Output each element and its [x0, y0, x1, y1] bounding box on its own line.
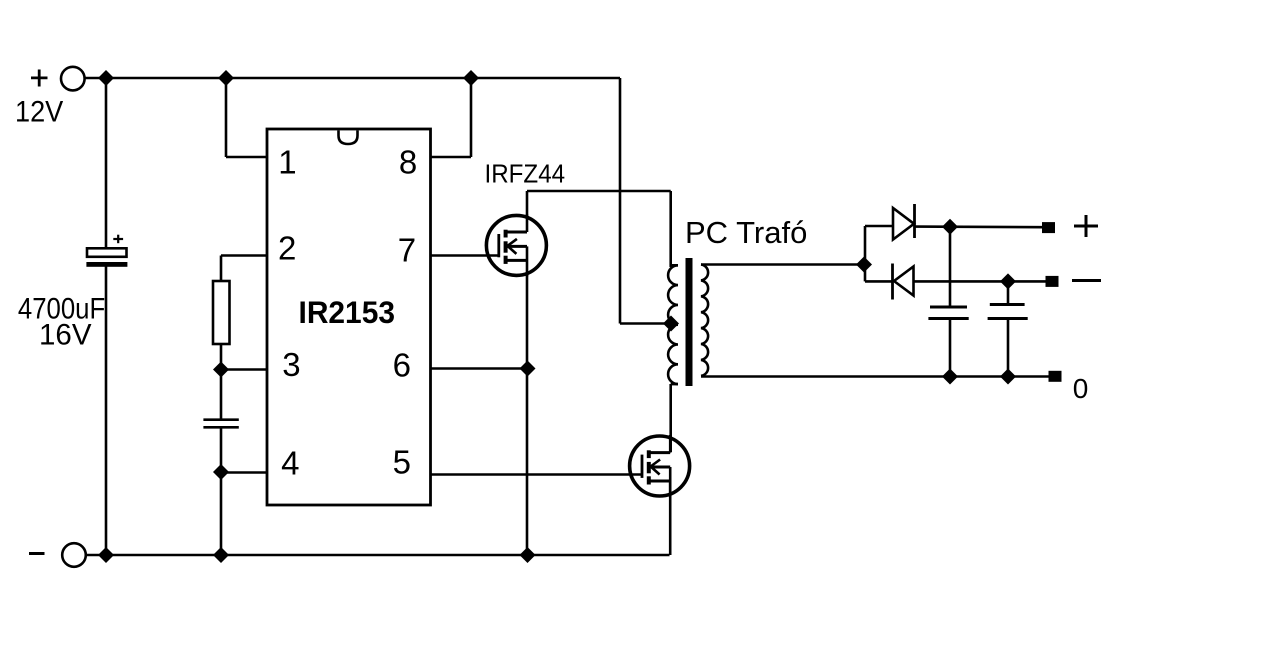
- svg-text:5: 5: [393, 444, 411, 481]
- wire CT top: [220, 370, 223, 419]
- node junction B: [218, 70, 234, 86]
- node junction H: [213, 464, 229, 480]
- capacitor C3: [928, 307, 968, 319]
- wire Q1 drain: [527, 191, 671, 267]
- wire C1 bottom: [105, 266, 108, 555]
- node junction C: [463, 70, 479, 86]
- svg-text:PC Trafó: PC Trafó: [685, 215, 807, 250]
- node junction D: [98, 547, 114, 563]
- wire pin7 gate: [430, 254, 500, 257]
- wire Q2 source: [669, 481, 672, 555]
- wire top rail: [85, 77, 620, 80]
- svg-text:16V: 16V: [39, 318, 92, 351]
- wire D1 out: [915, 225, 1044, 228]
- diode D2: [893, 264, 914, 300]
- wire pin8: [430, 78, 471, 157]
- wire C4 bottom: [1007, 320, 1010, 377]
- U1 notch: [339, 131, 358, 145]
- wire Q2 drain: [669, 384, 672, 452]
- transistor Q1: [486, 214, 546, 276]
- svg-text:7: 7: [398, 232, 416, 269]
- wire C3 top: [949, 227, 952, 307]
- svg-text:1: 1: [278, 144, 296, 181]
- node terminal minus: [1046, 276, 1059, 287]
- transformer T1 secondary: [701, 265, 708, 376]
- capacitor C2: [203, 420, 238, 428]
- wire pin1: [226, 78, 268, 157]
- wire C3 bottom: [949, 319, 952, 377]
- capacitor C1 plus: [113, 235, 123, 244]
- node junction A: [98, 70, 114, 86]
- svg-text:3: 3: [282, 346, 300, 383]
- svg-text:8: 8: [399, 144, 417, 181]
- transformer T1 core: [686, 258, 693, 386]
- wire 0 rail: [701, 375, 1050, 378]
- node V- input terminal: [62, 543, 86, 567]
- node center tap: [663, 316, 679, 332]
- svg-text:IR2153: IR2153: [299, 294, 395, 330]
- node junction E: [213, 547, 229, 563]
- wire R1 bottom: [220, 344, 223, 370]
- wire D2 out: [914, 280, 1048, 283]
- transistor Q2: [630, 435, 690, 497]
- wire pin4: [221, 472, 268, 555]
- label minus input: [29, 552, 45, 555]
- svg-text:IRFZ44: IRFZ44: [485, 160, 566, 189]
- svg-text:4: 4: [281, 445, 299, 482]
- IC U1 IR2153 body: [267, 129, 431, 505]
- node terminal plus: [1042, 222, 1055, 233]
- wire pin6: [430, 367, 528, 370]
- node junction M: [942, 369, 958, 385]
- svg-text:12V: 12V: [15, 96, 63, 129]
- wire Q1 source: [526, 275, 529, 555]
- wire bottom rail: [86, 554, 670, 557]
- wire C1 top: [105, 78, 108, 249]
- wire CT bottom: [220, 428, 223, 472]
- wire top rail drop: [620, 78, 668, 324]
- transformer T1 primary: [668, 265, 678, 384]
- node junction J: [856, 257, 872, 273]
- wire pin2: [221, 256, 268, 283]
- wire secondary top: [701, 263, 864, 266]
- capacitor C1: [86, 248, 127, 266]
- diode D1: [893, 204, 915, 240]
- wire pin5 gate: [430, 473, 643, 476]
- capacitor C4: [988, 305, 1028, 319]
- node junction K: [942, 219, 958, 235]
- wire diode branch: [865, 226, 893, 281]
- svg-text:2: 2: [278, 230, 296, 267]
- node terminal zero: [1049, 371, 1062, 382]
- node junction N: [1000, 369, 1016, 385]
- resistor R1: [213, 281, 230, 344]
- label plus input: [31, 70, 48, 87]
- label plus output: [1074, 215, 1098, 237]
- svg-text:0: 0: [1073, 373, 1089, 404]
- node junction G: [213, 362, 229, 378]
- label minus output: [1072, 279, 1101, 282]
- wire C4 top: [1007, 281, 1010, 304]
- node V+ input terminal: [61, 67, 85, 91]
- svg-text:6: 6: [393, 347, 411, 384]
- node junction I: [520, 361, 536, 377]
- wire pin3: [221, 368, 268, 371]
- node junction L: [1000, 273, 1016, 289]
- node junction F: [520, 547, 536, 563]
